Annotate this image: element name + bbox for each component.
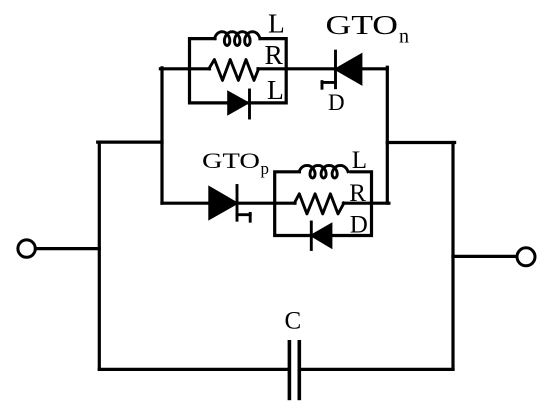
inner-left vertical wire <box>160 68 163 203</box>
left rail wire <box>98 142 101 369</box>
wire box2 R row to inner-right vertical <box>372 202 389 205</box>
GTOn cathode bar <box>334 51 337 88</box>
wire left terminal to left rail <box>36 247 100 250</box>
bottom wire right segment <box>301 368 453 371</box>
svg-text:L: L <box>268 8 285 39</box>
capacitor C right plate <box>297 342 301 399</box>
inductor L1 coil <box>215 32 261 46</box>
wire left rail top to inner-left junction <box>98 141 162 144</box>
wire R1 row inside box <box>190 67 210 70</box>
wire box1 to GTOn <box>286 67 335 70</box>
diode D1 triangle <box>228 92 248 114</box>
diode D2 cathode bar <box>310 222 313 250</box>
snubber box 1 outline (top) <box>190 39 287 103</box>
wire R2 row inside box <box>275 202 295 205</box>
wire GTOn to inner-right corner <box>361 67 387 70</box>
svg-text:D: D <box>328 90 345 115</box>
svg-text:C: C <box>285 307 302 334</box>
svg-text:p: p <box>261 159 270 178</box>
wire right rail to right terminal <box>453 255 517 258</box>
wire GTOp to snubber box 2 <box>237 202 275 205</box>
resistor R2 zigzag <box>294 194 344 214</box>
right rail wire <box>451 143 454 370</box>
svg-text:GTO: GTO <box>202 148 260 173</box>
svg-text:L: L <box>352 147 367 174</box>
GTOp anode bar <box>236 186 239 221</box>
GTOn triangle <box>336 54 362 84</box>
diode D1 cathode bar <box>248 90 251 118</box>
svg-text:L: L <box>267 74 284 105</box>
wire inner-left to GTOp <box>162 202 209 205</box>
wire inner-right junction to right rail <box>387 141 454 144</box>
GTOp gate lead <box>237 213 250 216</box>
right terminal circle <box>517 248 535 266</box>
svg-text:n: n <box>399 25 409 47</box>
wire to top snubber box <box>160 67 189 70</box>
resistor R1 zigzag <box>209 60 259 81</box>
GTOp triangle <box>209 187 237 219</box>
capacitor C left plate <box>288 342 292 399</box>
diode D2 triangle <box>311 224 331 248</box>
inductor L2 coil <box>299 165 348 178</box>
left terminal circle <box>18 240 35 257</box>
GTOn gate lead <box>322 81 336 84</box>
inner-right vertical wire <box>386 67 389 203</box>
svg-text:D: D <box>350 212 368 239</box>
svg-text:R: R <box>349 180 366 207</box>
snubber box 2 outline (lower) <box>275 172 372 236</box>
bottom wire left segment <box>99 368 288 371</box>
svg-text:R: R <box>265 39 284 70</box>
svg-text:GTO: GTO <box>326 9 399 40</box>
